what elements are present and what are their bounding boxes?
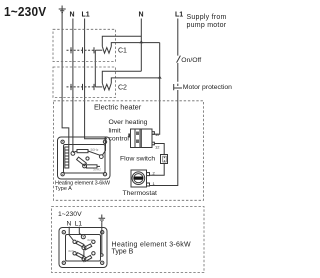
svg-text:Heating element 3-6kW: Heating element 3-6kW xyxy=(112,242,192,249)
wire PE down from ground symbol xyxy=(62,6,69,148)
svg-text:3kW: 3kW xyxy=(68,249,74,253)
svg-text:L1: L1 xyxy=(75,221,83,228)
terminal node B bottom xyxy=(82,257,86,261)
wire N right vertical xyxy=(140,19,142,72)
terminal strip in element A xyxy=(65,147,69,168)
resistor R1 in element A xyxy=(71,150,100,156)
resistor R6 element B xyxy=(84,255,92,261)
resistor R5 element B xyxy=(76,253,84,259)
thermostat TH1 xyxy=(131,170,150,187)
terminal node A2 xyxy=(99,155,103,159)
terminal node A3 xyxy=(86,157,89,160)
svg-text:N: N xyxy=(139,12,144,19)
contactor C1 contact rail xyxy=(67,47,103,53)
svg-text:control: control xyxy=(109,136,130,143)
wire terminal 12 to flow switch xyxy=(154,144,164,155)
svg-text:50Hz: 50Hz xyxy=(91,148,99,152)
svg-text:N: N xyxy=(67,221,72,228)
wire link apexes xyxy=(83,250,85,257)
contactor C2 box (dashed) xyxy=(53,67,116,98)
junction coil C2 feed xyxy=(158,76,162,79)
svg-text:limit: limit xyxy=(109,128,121,135)
wire L1 into element B xyxy=(79,227,82,236)
svg-text:Type B: Type B xyxy=(112,249,134,256)
junction N x lineB1 xyxy=(139,40,143,43)
svg-text:L1: L1 xyxy=(82,12,90,19)
ground PE symbol bottom xyxy=(99,215,106,222)
svg-text:Thermostat: Thermostat xyxy=(123,190,157,197)
wire flow switch to thermostat t2 xyxy=(150,164,165,176)
wire N into element B xyxy=(69,227,73,240)
terminal node B top xyxy=(81,235,85,239)
wire PE into element B xyxy=(101,223,103,254)
junction element A feed xyxy=(104,137,108,140)
svg-text:C1: C1 xyxy=(118,48,127,55)
contactor C1 box (dashed) xyxy=(53,29,116,61)
electric heater enclosure box (dashed) xyxy=(54,101,204,201)
terminal node B left2 xyxy=(73,252,76,255)
wire pole4 between rails xyxy=(94,50,96,87)
heating element type A xyxy=(58,137,111,179)
resistor R2 in element A xyxy=(77,157,100,168)
wire L1 right vertical with switch breaks xyxy=(150,19,178,186)
svg-text:Type A: Type A xyxy=(55,186,72,192)
svg-text:N: N xyxy=(70,12,75,19)
ground PE symbol top left xyxy=(59,9,66,13)
switch On/Off xyxy=(177,56,181,63)
contactor C2 contact rail xyxy=(67,84,103,90)
resistor R4 element B xyxy=(84,244,92,250)
svg-text:Supply from: Supply from xyxy=(187,14,227,21)
svg-text:Electric heater: Electric heater xyxy=(94,103,142,112)
resistor R3 element B xyxy=(76,241,84,247)
terminal node B right2 xyxy=(92,252,95,255)
wire N down left xyxy=(72,19,74,152)
wire coil C2 left to N xyxy=(102,71,141,83)
svg-text:Flow switch: Flow switch xyxy=(120,156,155,163)
terminal node B mid xyxy=(82,246,86,250)
wire coil C1 left to N xyxy=(102,36,141,46)
svg-text:L1: L1 xyxy=(175,12,183,19)
terminal node B right1 xyxy=(92,240,95,243)
svg-text:12: 12 xyxy=(155,145,160,150)
coil C1 (W glyph) xyxy=(102,46,111,53)
svg-text:3kW: 3kW xyxy=(87,238,93,242)
svg-text:50Hz: 50Hz xyxy=(93,168,101,172)
svg-text:Motor protection: Motor protection xyxy=(183,84,232,91)
svg-text:1~230V: 1~230V xyxy=(4,4,47,19)
terminal node B left1 xyxy=(73,240,76,243)
heating element type B xyxy=(59,228,107,268)
over heating limit control U1 xyxy=(128,129,154,148)
bottom enclosure box (dashed) xyxy=(52,207,205,273)
svg-text:Over heating: Over heating xyxy=(109,119,148,126)
contact motor protection xyxy=(174,84,182,91)
svg-text:1~230V: 1~230V xyxy=(58,211,82,218)
wire coil C2 right join xyxy=(111,78,159,83)
svg-text:C2: C2 xyxy=(118,85,127,92)
wire L1 down left xyxy=(85,19,106,155)
svg-text:On/Off: On/Off xyxy=(181,57,201,64)
wire feed to terminal 11 xyxy=(152,43,160,135)
svg-text:pump motor: pump motor xyxy=(187,22,227,29)
wire coil C1 right to limit control feed xyxy=(111,43,159,47)
coil C2 (W glyph) xyxy=(102,83,111,90)
flow switch S1 xyxy=(161,155,168,164)
